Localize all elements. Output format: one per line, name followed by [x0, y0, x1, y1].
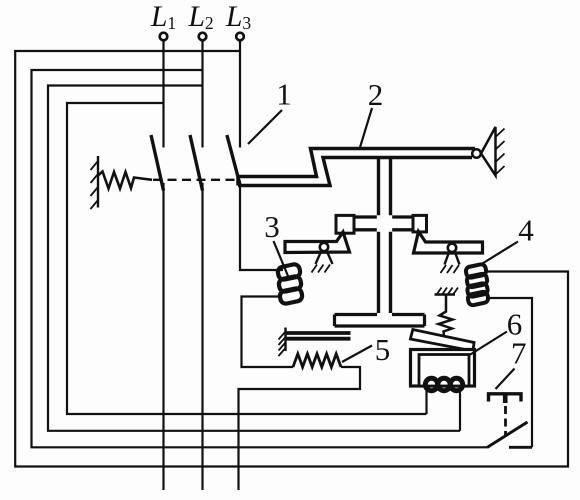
svg-text:L2: L2	[188, 1, 214, 33]
wire W2: L2 tap around left/bottom to button blade pivot	[32, 70, 488, 447]
terminal L3	[225, 1, 251, 40]
right lever pivot	[441, 244, 460, 273]
armature plate of release 6	[410, 330, 474, 352]
wire W4: L1 tap around left/bottom to coil 6 left terminal	[67, 103, 427, 414]
wire heater return to L3 load line	[239, 367, 361, 490]
wire L1 incoming drop	[162, 40, 164, 147]
button fixed contact stub	[509, 446, 532, 449]
coil 6 right terminal	[459, 386, 461, 431]
undervoltage armature spring	[439, 295, 453, 340]
svg-text:7: 7	[511, 336, 527, 371]
bimetal wall anchor	[279, 328, 286, 357]
bimetallic strip	[287, 333, 351, 339]
button actuator dashed stem	[504, 406, 507, 436]
overcurrent release coil 3	[277, 263, 303, 304]
main contact blade phase 1	[151, 135, 164, 191]
button blade	[487, 422, 528, 448]
contact opening spring	[98, 172, 152, 189]
main contact blade phase 2	[190, 135, 203, 191]
main contact blade phase 3 (label 1)	[227, 135, 240, 185]
label 6	[470, 307, 523, 356]
wall mount triangle top right	[481, 127, 505, 176]
undervoltage armature spring anchor	[435, 288, 459, 295]
label 2	[360, 77, 384, 149]
label 1	[248, 77, 292, 145]
wire L1 load line down	[162, 183, 164, 490]
svg-text:L1: L1	[150, 1, 176, 33]
svg-text:1: 1	[276, 77, 292, 112]
wire coil 3 to heater	[242, 297, 294, 368]
svg-text:2: 2	[368, 77, 384, 112]
label 5	[342, 332, 390, 367]
undervoltage release box (label 6)	[411, 350, 475, 387]
svg-text:4: 4	[518, 213, 534, 248]
wall anchor for contact spring	[91, 156, 99, 209]
terminal L2	[188, 1, 214, 40]
coil 6 left terminal	[425, 386, 427, 414]
svg-text:3: 3	[264, 209, 280, 244]
crossbar left hook box	[336, 215, 354, 233]
crossbar of trip mechanism	[354, 217, 413, 230]
svg-text:L3: L3	[225, 1, 251, 33]
coil loops of release 6	[425, 378, 462, 390]
left trip lever (seesaw)	[285, 232, 350, 253]
mechanism link bar + top lever (label 2)	[238, 149, 475, 186]
label 7	[496, 336, 527, 390]
shunt release coil (label 4)	[465, 264, 489, 306]
thermal heater element (label 5)	[293, 354, 341, 367]
wire L3 to overcurrent coil	[240, 187, 283, 270]
crossbar right hook box	[413, 215, 427, 232]
push button cap (label 7)	[489, 394, 522, 403]
wire L2 load line down	[201, 183, 203, 490]
label 4	[480, 213, 534, 266]
mechanism foot bar	[335, 315, 425, 327]
left lever pivot	[312, 243, 333, 273]
lever pivot circle	[472, 149, 481, 158]
label 3	[264, 209, 288, 276]
terminal L1	[150, 1, 176, 40]
trip linkage dashed bar	[153, 179, 238, 181]
wire coil 4 bottom to button fixed contact	[486, 298, 532, 447]
right trip lever (seesaw)	[414, 232, 483, 254]
wire W1: L3 tap around left/bottom/right to coil 4 top	[15, 51, 568, 467]
svg-text:5: 5	[375, 332, 391, 367]
central strut of trip mechanism	[379, 159, 391, 313]
wire L2 incoming drop	[201, 40, 203, 147]
wire L3 incoming drop	[239, 40, 241, 147]
wire W3: L2 tap around left/bottom to coil 6 right terminal	[48, 86, 460, 431]
